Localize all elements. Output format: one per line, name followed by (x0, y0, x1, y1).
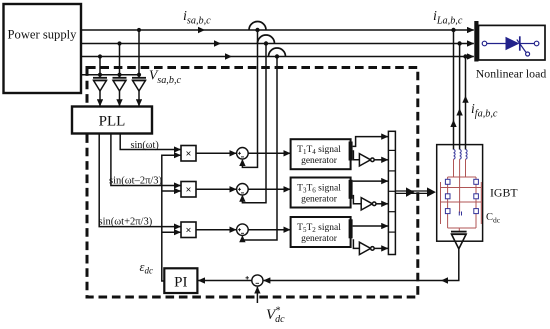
inductor Lb (460, 150, 462, 160)
dashed control-boundary box (87, 68, 418, 298)
nonlinear load input bar (474, 21, 478, 62)
wire N3 to bus (374, 247, 388, 249)
svg-text:×: × (186, 185, 192, 196)
inverter N2 (361, 198, 376, 210)
bridge wiring red (441, 159, 482, 231)
wire Vdc measure to summer S4 (264, 249, 459, 281)
wire S3 to generator G3 (248, 229, 290, 231)
IGBT switch Q4 (474, 194, 479, 199)
svg-text:ifa,b,c: ifa,b,c (471, 101, 498, 120)
arrow on phase-b (214, 40, 221, 46)
IGBT switch Q3 (445, 194, 450, 199)
arrow up filter a (450, 120, 456, 127)
summer S4 (246, 275, 264, 286)
svg-text:V*dc: V*dc (266, 306, 285, 325)
arrow on phase-c (225, 53, 232, 59)
svg-text:εdc: εdc (140, 260, 153, 276)
svg-text:sin(ωt+2π/3): sin(ωt+2π/3) (99, 216, 153, 227)
svg-text:Power supply: Power supply (8, 28, 78, 42)
svg-text:isa,b,c: isa,b,c (183, 9, 211, 27)
svg-text:PLL: PLL (99, 114, 126, 130)
wire sensor feed line from supply (81, 74, 139, 76)
filter lines into block (454, 145, 466, 150)
wire G2 to inverter N2 (353, 196, 362, 204)
svg-text:generator: generator (301, 234, 338, 244)
multiplier M1 (181, 146, 196, 162)
IGBT switch Q5 (445, 209, 450, 214)
svg-text:generator: generator (301, 156, 338, 166)
PI controller (164, 268, 197, 293)
wire CT a feedback drop (242, 30, 257, 167)
generator G1 T1T4 (291, 139, 353, 169)
wire phase-c line (81, 56, 474, 58)
dc-link capacitor mark (459, 212, 461, 216)
wire G3 direct to bus (353, 225, 388, 227)
wire S2 to generator G2 (248, 188, 290, 190)
voltage sensor c (132, 78, 146, 106)
node sensor feed b (117, 73, 121, 77)
svg-text:Nonlinear load: Nonlinear load (476, 67, 547, 81)
arrow on phase-a (198, 27, 205, 33)
node sensor feed c (137, 73, 141, 77)
wire G1 direct to bus (353, 137, 388, 147)
wire feed branch M3 (162, 231, 181, 233)
inverter N1 (359, 154, 374, 166)
voltage sensor a (93, 78, 107, 106)
node on phase-b for sensor b (117, 41, 121, 45)
thick gating arrow bus to IGBT (395, 187, 436, 197)
wire G3 to inverter N3 (353, 240, 360, 248)
svg-text:sin(ωt): sin(ωt) (131, 140, 159, 151)
PLL block (72, 107, 152, 134)
arrow up filter c (462, 96, 468, 103)
inverter N3 (359, 242, 374, 254)
svg-text:Vsa,b,c: Vsa,b,c (149, 68, 181, 87)
wire S4 to PI (198, 280, 252, 282)
wire M3 to summer S3 (196, 229, 236, 231)
summer S2 (237, 184, 249, 196)
svg-text:sin(ωt–2π/3): sin(ωt–2π/3) (109, 175, 163, 186)
wire filter line a (453, 30, 455, 145)
svg-text:iLa,b,c: iLa,b,c (433, 9, 463, 27)
node load tap c (463, 54, 467, 58)
summer S3 (237, 224, 249, 236)
wire sensor drop b (119, 44, 121, 78)
wire filter line c (465, 57, 467, 145)
voltage sensor b (113, 78, 127, 106)
wire G1 to inverter N1 (353, 151, 360, 160)
arrow mid Vdc wire (441, 277, 448, 283)
inductor Lc (466, 150, 468, 160)
summer S1 (237, 148, 249, 160)
wire PLL out sin(wt-2pi/3) (111, 134, 181, 186)
wire CT c feedback drop (242, 57, 277, 241)
wire G2 direct to bus (353, 180, 388, 182)
nonlinear load box (479, 25, 546, 60)
wire phase-a line (81, 29, 474, 31)
wire sensor drop a (99, 57, 101, 78)
multiplier M3 (181, 222, 196, 238)
thyristor in load (482, 36, 539, 56)
svg-text:Cdc: Cdc (486, 212, 501, 225)
IGBT inverter block (437, 145, 483, 242)
wire PLL out sin(wt+2pi/3) (99, 134, 180, 227)
node sensor feed a (98, 73, 102, 77)
multiplier M2 (181, 182, 196, 198)
wire S1 to generator G1 (248, 152, 290, 154)
gate-signal bus connector (388, 131, 395, 254)
svg-text:×: × (186, 149, 192, 160)
IGBT switch Q1 (445, 179, 450, 184)
IGBT switch Q2 (474, 179, 479, 184)
CT b (258, 35, 275, 46)
node load tap a (451, 28, 455, 32)
arrow up filter b (456, 108, 462, 115)
node load tap b (457, 41, 461, 45)
wire feed branch M2 (162, 190, 181, 192)
wire filter line b (459, 44, 461, 145)
inductor La (453, 150, 455, 160)
wire N1 to bus (374, 159, 388, 161)
wire phase-b line (81, 43, 474, 45)
node on phase-c for sensor a (98, 54, 102, 58)
svg-text:PI: PI (174, 275, 187, 291)
wire PLL out sin(wt) (120, 134, 180, 150)
wire Vdc reference input (256, 287, 258, 303)
node on phase-a for sensor c (137, 28, 141, 32)
wire sensor drop c (138, 30, 140, 78)
dc voltage sensor (451, 232, 467, 249)
svg-text:×: × (186, 226, 192, 237)
wire M2 to summer S2 (196, 188, 236, 190)
wire M1 to summer S1 (196, 152, 236, 154)
wire N2 to bus (376, 203, 388, 205)
wire CT b feedback drop (242, 44, 266, 203)
IGBT switch Q6 (474, 209, 479, 214)
CT a (249, 22, 266, 33)
svg-text:IGBT: IGBT (490, 186, 518, 200)
generator G3 T5T2 (291, 217, 353, 247)
CT c (269, 48, 286, 59)
wire PI output feed to multipliers (162, 155, 181, 281)
svg-text:generator: generator (301, 194, 338, 204)
power supply box (4, 4, 82, 93)
generator G2 T3T6 (291, 178, 353, 208)
